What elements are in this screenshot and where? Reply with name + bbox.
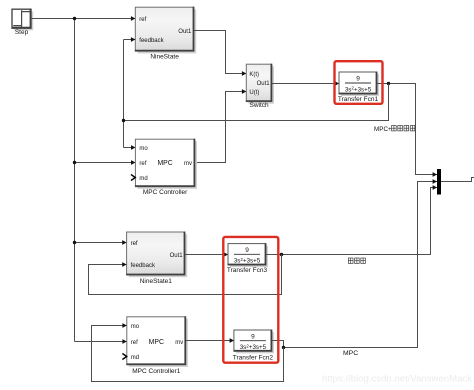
wire MPC mv to Switch U(t) (195, 92, 246, 163)
svg-text:Step: Step (15, 29, 29, 36)
block NineState1 (127, 232, 188, 277)
block Step (12, 9, 33, 30)
arrow into mux port2 (433, 179, 437, 184)
wire feedback return loop2 (89, 255, 282, 295)
svg-text:md: md (131, 355, 139, 361)
mux block (437, 169, 441, 195)
md unconnected chevron MPC Controller1 (122, 354, 126, 360)
arrow into MPC Controller1 ref (122, 339, 126, 344)
svg-text:ref: ref (139, 17, 146, 23)
svg-text:ref: ref (131, 241, 138, 247)
svg-text:MPC: MPC (343, 350, 358, 357)
svg-text:md: md (139, 176, 147, 182)
junction loop1 feedback split (122, 119, 125, 122)
junction at Step branch (73, 17, 76, 20)
svg-text:K(t): K(t) (249, 72, 259, 78)
svg-text:ref: ref (131, 340, 138, 346)
arrow into Transfer Fcn2 (230, 338, 234, 343)
wire into MPC mo (124, 147, 136, 149)
arrow into MPC mo (131, 145, 135, 150)
svg-text:Switch: Switch (250, 102, 270, 109)
wire Transfer Fcn3 out to mux port3 (266, 188, 437, 255)
svg-text:9: 9 (356, 76, 360, 83)
svg-text:feedback: feedback (139, 38, 164, 44)
wire NineState1 Out1 to Transfer Fcn3 (185, 254, 228, 256)
svg-text:MPC Controller: MPC Controller (143, 189, 188, 196)
wire feedback return loop3 to MPC Controller1 mo (92, 326, 284, 382)
md unconnected chevron MPC (131, 175, 135, 181)
svg-text:MPC: MPC (157, 160, 172, 167)
svg-text:mo: mo (131, 324, 140, 330)
label MPC+logic control (374, 126, 415, 134)
wire into NineState feedback (124, 39, 136, 41)
wire trunk to MPC Controller1 ref (75, 341, 127, 343)
wire vertical to NineState feedback and MPC mo (123, 40, 125, 148)
svg-text:NineState1: NineState1 (140, 278, 173, 285)
junction Transfer Fcn1 output (387, 82, 390, 85)
junction trunk NineState1 ref (73, 241, 76, 244)
svg-text:feedback: feedback (131, 263, 156, 269)
wire Switch out to Transfer Fcn1 (272, 83, 339, 85)
svg-text:U(t): U(t) (249, 90, 259, 96)
block MPC Controller (135, 139, 197, 189)
block MPC Controller1 (127, 317, 188, 367)
svg-text:Transfer Fcn2: Transfer Fcn2 (233, 354, 274, 361)
block Switch (246, 64, 274, 104)
svg-text:9: 9 (251, 333, 255, 340)
block Transfer Fcn1 (339, 72, 379, 96)
svg-text:3s2+3s+5: 3s2+3s+5 (234, 257, 261, 265)
wire mux output (441, 178, 474, 182)
arrow into Switch K(t) (242, 71, 246, 76)
arrow into NineState ref (131, 16, 135, 21)
junction Transfer Fcn3 output (280, 253, 283, 256)
arrow into mux port3 (433, 185, 437, 190)
arrow into MPC Controller1 mo (122, 323, 126, 328)
svg-text:9: 9 (245, 247, 249, 254)
svg-text:mv: mv (184, 161, 192, 167)
arrow into Transfer Fcn3 (224, 252, 228, 257)
arrow into Transfer Fcn1 (335, 81, 339, 86)
svg-text:mv: mv (175, 340, 183, 346)
svg-text:MPC: MPC (149, 339, 164, 346)
wire trunk to MPC ref (75, 162, 136, 164)
svg-text:Out1: Out1 (178, 29, 192, 35)
wire NineState Out1 to Switch K(t) (194, 31, 246, 74)
arrow into NineState1 feedback (122, 262, 126, 267)
svg-text:MPC+: MPC+ (374, 126, 392, 133)
svg-text:ref: ref (139, 161, 146, 167)
red rectangle around Transfer Fcn3 and Transfer Fcn2 (223, 237, 278, 363)
arrow into mux port1 (433, 172, 437, 177)
block Transfer Fcn2 (234, 330, 274, 353)
svg-text:Out1: Out1 (170, 253, 184, 259)
arrow into NineState feedback (131, 37, 135, 42)
svg-text:Transfer Fcn1: Transfer Fcn1 (338, 96, 379, 103)
wire MPC Controller1 mv to Transfer Fcn2 (186, 340, 234, 342)
svg-text:MPC Controller1: MPC Controller1 (132, 368, 180, 375)
svg-text:Transfer Fcn3: Transfer Fcn3 (227, 267, 268, 274)
arrow into NineState1 ref (122, 240, 126, 245)
wire Transfer Fcn1 out to mux port1 (377, 84, 437, 175)
svg-text:https://blog.csdn.net/VanswenM: https://blog.csdn.net/VanswenMack (322, 374, 472, 385)
wire trunk to NineState1 ref (75, 242, 127, 244)
junction Transfer Fcn2 output (282, 346, 285, 349)
wire feedback return loop1 (124, 84, 389, 121)
arrow into MPC ref (131, 160, 135, 165)
svg-text:NineState: NineState (150, 54, 179, 61)
svg-text:mo: mo (139, 146, 148, 152)
arrow into Switch U(t) (242, 89, 246, 94)
block NineState (135, 7, 196, 53)
svg-text:Out1: Out1 (257, 81, 271, 87)
junction trunk MPC ref (73, 161, 76, 164)
wire Transfer Fcn2 out to mux port2 (272, 182, 437, 348)
wire vertical trunk from Step junction (74, 19, 76, 342)
block Transfer Fcn3 (228, 244, 268, 268)
label rolling window (CJK) (348, 258, 365, 263)
red rectangle around Transfer Fcn1 (335, 61, 383, 104)
svg-text:3s2+3s+5: 3s2+3s+5 (345, 86, 372, 94)
wire Step to NineState ref and down (31, 18, 136, 20)
